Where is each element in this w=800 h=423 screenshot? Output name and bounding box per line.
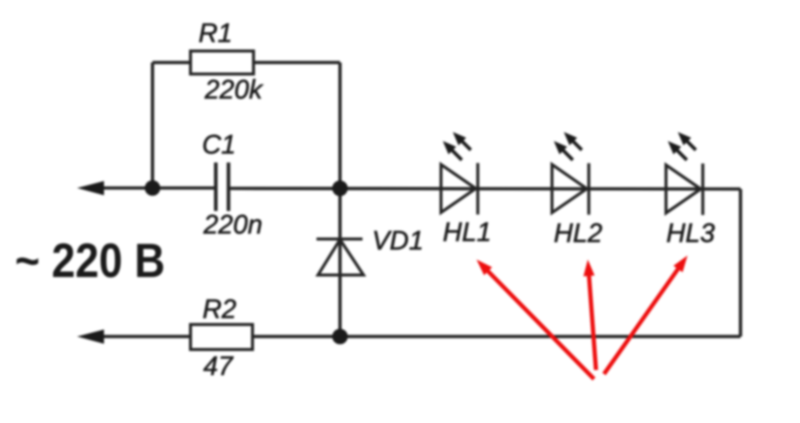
svg-text:HL3: HL3 bbox=[666, 218, 715, 248]
diode VD1 bbox=[317, 239, 364, 275]
LED HL2 bbox=[552, 163, 589, 215]
svg-text:VD1: VD1 bbox=[372, 226, 424, 256]
LED HL3 emission arrows bbox=[668, 132, 696, 160]
wire : top main horizontal from C1 to right vertical bbox=[229, 187, 741, 191]
arrow left bottom terminal bbox=[77, 330, 104, 344]
LED HL1 emission arrows bbox=[443, 132, 471, 160]
node A : junction dot left bbox=[145, 180, 161, 196]
LED HL2 emission arrows bbox=[554, 132, 582, 160]
svg-text:220k: 220k bbox=[204, 75, 264, 105]
wire : R1 branch left vertical bbox=[151, 63, 154, 189]
wire : bottom horizontal bbox=[96, 335, 741, 338]
svg-text:220n: 220n bbox=[203, 210, 263, 240]
svg-text:HL1: HL1 bbox=[443, 217, 492, 247]
svg-text:R1: R1 bbox=[199, 18, 233, 48]
node B : junction dot top of VD1 bbox=[332, 181, 348, 197]
wire : right vertical bbox=[739, 189, 742, 337]
svg-text:HL2: HL2 bbox=[554, 218, 603, 248]
node C : junction dot bottom of VD1 bbox=[332, 329, 348, 345]
svg-text:47: 47 bbox=[203, 351, 234, 381]
svg-text:C1: C1 bbox=[202, 130, 236, 160]
LED HL3 bbox=[666, 164, 703, 216]
red pointer arrow to HL1 bbox=[477, 256, 688, 380]
wire : top main horizontal left of C1 bbox=[96, 186, 215, 189]
svg-text:~ 220 В: ~ 220 В bbox=[15, 235, 165, 288]
capacitor C1 bbox=[216, 163, 229, 212]
wire : VD1 vertical bbox=[338, 188, 341, 337]
red pointer arrow to HL2 bbox=[589, 272, 596, 370]
wire : R1 branch right vertical bbox=[338, 63, 341, 189]
LED HL1 bbox=[441, 163, 478, 215]
svg-text:R2: R2 bbox=[203, 294, 237, 324]
wire : R1 branch top horizontal bbox=[153, 61, 341, 64]
arrow left top terminal bbox=[77, 181, 104, 195]
resistor R1 bbox=[191, 51, 254, 74]
resistor R2 bbox=[191, 325, 253, 350]
red pointer arrow to HL3 bbox=[604, 266, 680, 374]
